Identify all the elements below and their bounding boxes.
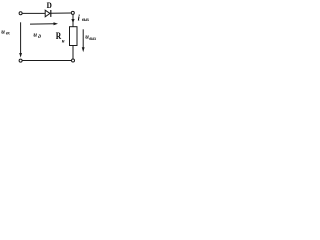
terminal output top <box>71 11 74 14</box>
voltage arrow u_d <box>30 22 58 25</box>
resistor Rn <box>70 27 78 46</box>
svg-text:D: D <box>47 1 52 10</box>
voltage arrow u_vx <box>19 22 22 57</box>
svg-text:u: u <box>1 29 5 36</box>
terminal input top <box>19 12 22 15</box>
current arrow i_vyh <box>71 19 74 23</box>
wire top horizontal diode to output node <box>51 12 71 14</box>
terminal input bottom <box>19 59 22 62</box>
wire output node down to resistor <box>72 14 74 26</box>
svg-text:д: д <box>38 33 41 40</box>
diode D <box>45 10 51 17</box>
svg-text:вх: вх <box>6 30 10 36</box>
voltage arrow u_vyh <box>82 29 85 52</box>
svg-text:н: н <box>62 40 65 45</box>
wire resistor to output bottom terminal <box>72 46 74 60</box>
svg-text:u: u <box>33 32 37 39</box>
wire bottom horizontal <box>22 60 71 62</box>
svg-text:R: R <box>56 32 62 42</box>
wire top horizontal input to diode <box>22 12 45 14</box>
terminal output bottom <box>72 59 75 62</box>
svg-text:вых: вых <box>82 17 90 23</box>
svg-text:вых: вых <box>89 36 96 42</box>
